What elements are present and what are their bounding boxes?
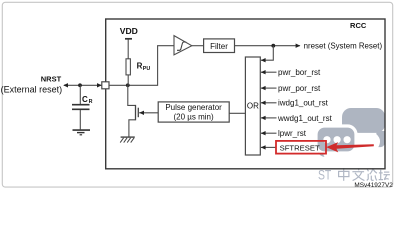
- svg-text:RCC: RCC: [350, 21, 367, 30]
- watermark front speech bubble: [316, 126, 356, 157]
- transistor Q1 gate bar: [137, 108, 139, 118]
- RCC block box: [106, 19, 385, 169]
- wire wwdg1_out_rst: [261, 117, 277, 119]
- arrowhead pwr_bor_rst: [261, 70, 266, 74]
- wire lpwr_rst: [261, 132, 277, 134]
- wire OR to pulse generator: [229, 112, 245, 114]
- svg-text:nreset (System Reset): nreset (System Reset): [304, 42, 383, 51]
- transistor Q1 source wire: [129, 120, 136, 137]
- wire pwr_bor_rst: [261, 71, 277, 73]
- arrowhead wwdg1_out_rst: [261, 116, 266, 120]
- VDD supply bar: [125, 38, 132, 40]
- svg-text:lpwr_rst: lpwr_rst: [278, 129, 307, 138]
- red annotation arrow: [326, 142, 374, 152]
- wire iwdg1_out_rst: [261, 102, 277, 104]
- arrowhead SFTRESET: [261, 145, 266, 149]
- wire gate lead: [139, 112, 158, 114]
- wire VDD to RPU: [127, 40, 129, 59]
- svg-text:Filter: Filter: [210, 42, 228, 51]
- watermark glyph 论: [367, 168, 377, 180]
- svg-text:PU: PU: [143, 66, 151, 72]
- Pulse generator box: [158, 102, 229, 122]
- transistor Q1 drain wire: [128, 85, 136, 105]
- wire feedback to OR: [261, 46, 273, 61]
- svg-text:SFTRESET: SFTRESET: [280, 143, 320, 152]
- capacitor CR plates: [72, 105, 90, 110]
- arrowhead feedback into OR: [261, 58, 266, 62]
- ground (CR): [73, 130, 91, 135]
- capacitor CR wire top: [79, 85, 81, 104]
- svg-text:C: C: [82, 95, 88, 104]
- wire pwr_por_rst: [261, 87, 277, 89]
- svg-text:(20 µs min): (20 µs min): [174, 113, 215, 122]
- svg-text:Pulse generator: Pulse generator: [165, 103, 222, 112]
- watermark back speech bubble: [342, 108, 385, 147]
- arrowhead pwr_por_rst: [261, 86, 266, 90]
- watermark glyph 中: [339, 168, 349, 181]
- svg-text:NRST: NRST: [41, 74, 62, 83]
- svg-text:OR: OR: [247, 102, 259, 111]
- Filter box: [204, 39, 235, 53]
- Schmitt hysteresis glyph: [177, 42, 186, 50]
- arrowhead into gate: [139, 111, 144, 115]
- svg-text:iwdg1_out_rst: iwdg1_out_rst: [278, 99, 329, 108]
- node RPU junction: [126, 83, 130, 87]
- op-amp style Schmitt trigger buffer: [174, 36, 192, 55]
- svg-text:MSv41927V2: MSv41927V2: [354, 182, 393, 189]
- arrowhead nreset: [296, 44, 301, 48]
- capacitor CR wire bottom: [79, 110, 81, 129]
- red highlight box around SFTRESET: [276, 141, 326, 154]
- arrowhead iwdg1_out_rst: [261, 101, 266, 105]
- node feedback junction: [271, 44, 275, 48]
- svg-text:(External reset): (External reset): [1, 85, 63, 95]
- transistor Q1 channel bar: [135, 105, 137, 120]
- arrowhead left to NRST label: [63, 83, 68, 87]
- outer light frame: [2, 2, 392, 187]
- wire NRST internal: [109, 46, 174, 86]
- ground (transistor, hatched): [120, 137, 135, 143]
- wire filter to nreset: [235, 45, 300, 47]
- resistor RPU: [126, 59, 130, 75]
- wire buffer to filter: [192, 45, 204, 47]
- node CR junction: [78, 83, 82, 87]
- arrowhead lpwr_rst: [261, 131, 266, 135]
- OR gate box: [245, 57, 260, 155]
- wire RPU to node: [127, 75, 129, 85]
- pad square on box edge: [102, 82, 109, 89]
- wire SFTRESET: [261, 146, 276, 148]
- watermark glyph 文: [352, 168, 364, 180]
- svg-text:R: R: [89, 99, 93, 105]
- svg-text:pwr_bor_rst: pwr_bor_rst: [278, 68, 321, 77]
- svg-text:R: R: [137, 62, 143, 71]
- wire NRST external segment: [64, 84, 102, 86]
- svg-text:wwdg1_out_rst: wwdg1_out_rst: [277, 114, 333, 123]
- svg-text:VDD: VDD: [120, 26, 138, 36]
- watermark glyph 坛: [379, 170, 390, 180]
- svg-text:pwr_por_rst: pwr_por_rst: [278, 84, 321, 93]
- arrowhead right into pad: [97, 83, 102, 87]
